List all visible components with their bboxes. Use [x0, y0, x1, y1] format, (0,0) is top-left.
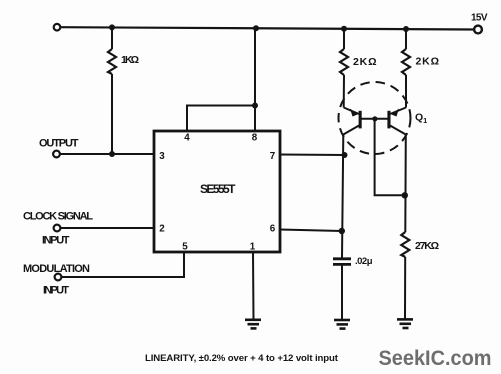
svg-text:1: 1: [250, 241, 256, 252]
svg-text:5: 5: [182, 241, 188, 252]
svg-text:.02μ: .02μ: [355, 256, 373, 267]
svg-text:INPUT: INPUT: [42, 234, 70, 246]
svg-text:2KΩ: 2KΩ: [353, 56, 377, 68]
svg-text:CLOCK SIGNAL: CLOCK SIGNAL: [23, 211, 93, 223]
svg-text:INPUT: INPUT: [43, 284, 69, 296]
svg-text:2KΩ: 2KΩ: [416, 56, 440, 68]
svg-text:4: 4: [184, 133, 190, 144]
svg-text:OUTPUT: OUTPUT: [39, 138, 79, 150]
svg-text:6: 6: [270, 224, 276, 235]
svg-text:MODULATION: MODULATION: [23, 263, 90, 275]
svg-text:27KΩ: 27KΩ: [415, 240, 439, 252]
svg-text:15V: 15V: [471, 12, 488, 23]
svg-text:LINEARITY, ±0.2% over + 4 to +: LINEARITY, ±0.2% over + 4 to +12 volt in…: [145, 353, 339, 364]
svg-text:1KΩ: 1KΩ: [121, 54, 139, 66]
svg-text:SE555T: SE555T: [200, 182, 236, 196]
svg-text:3: 3: [159, 151, 165, 162]
svg-text:2: 2: [159, 224, 165, 235]
svg-text:8: 8: [252, 133, 258, 144]
svg-text:SeekIC.com: SeekIC.com: [379, 346, 492, 370]
svg-text:7: 7: [270, 151, 276, 162]
